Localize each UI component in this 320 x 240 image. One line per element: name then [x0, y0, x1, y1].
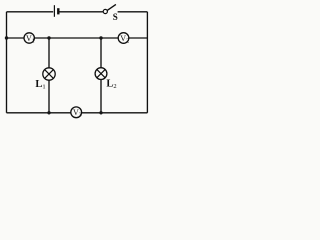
lamp L1 circle — [43, 68, 55, 80]
wire bottom left segment — [7, 112, 71, 114]
svg-text:L1: L1 — [35, 79, 45, 90]
junction node B top of branch 2 — [99, 36, 102, 39]
lamp L2 circle — [95, 68, 107, 80]
svg-text:L2: L2 — [106, 79, 116, 90]
lamp L1 cross — [45, 70, 54, 79]
wire branch 2 lower — [100, 80, 102, 113]
junction node A top of branch 1 — [47, 36, 50, 39]
switch S blade — [107, 4, 116, 10]
wire left vertical — [6, 12, 8, 113]
wire V2 to right vertical — [129, 37, 148, 39]
wire battery to switch — [60, 11, 104, 13]
wire switch to top right corner — [118, 11, 148, 13]
junction node C bottom of branch 1 — [47, 111, 50, 114]
wire branch 1 upper — [48, 38, 50, 68]
wire branch 2 upper — [100, 38, 102, 68]
battery cell long plate — [53, 5, 55, 17]
wire top left segment — [7, 11, 54, 13]
voltmeter V3 circle — [71, 107, 82, 118]
lamp L2 cross — [97, 69, 105, 77]
wire branch 1 lower — [48, 80, 50, 113]
voltmeter V2 circle — [118, 33, 129, 44]
wire middle left segment — [7, 37, 24, 39]
junction dot left middle — [5, 36, 8, 39]
wire right vertical — [146, 12, 148, 113]
svg-text:S: S — [113, 12, 118, 22]
switch S pivot circle — [103, 9, 107, 13]
junction node D bottom of branch 2 — [99, 111, 102, 114]
wire V3 to bottom right corner — [82, 112, 148, 114]
wire V1 to node B — [34, 37, 118, 39]
voltmeter V1 circle — [24, 33, 34, 43]
battery cell short thick plate — [57, 8, 59, 14]
